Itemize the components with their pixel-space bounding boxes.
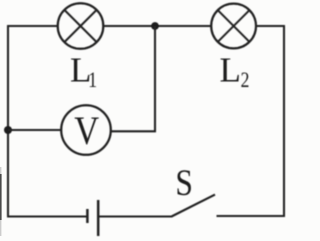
wire: right vertical	[283, 26, 285, 217]
svg-text:V: V	[74, 109, 99, 153]
lamp L2	[211, 4, 256, 49]
wire: bottom middle segment	[99, 215, 172, 217]
wire: middle vertical	[154, 26, 156, 132]
wire: top left segment	[7, 25, 58, 27]
battery cell	[87, 200, 98, 236]
voltmeter V	[61, 105, 111, 155]
svg-text:2: 2	[241, 68, 250, 92]
switch S lever	[172, 195, 216, 217]
wire: left vertical	[7, 26, 9, 216]
node junction dot left	[4, 126, 12, 134]
wire: voltmeter right lead	[110, 130, 156, 132]
node junction dot top	[151, 22, 159, 30]
wire: top right segment	[256, 25, 285, 27]
lamp L1	[58, 3, 104, 49]
wire: bottom right segment	[217, 215, 285, 217]
wire: bottom left segment	[7, 215, 87, 217]
svg-text:L: L	[220, 50, 241, 89]
svg-text:S: S	[175, 163, 193, 204]
svg-text:1: 1	[88, 68, 97, 92]
wire: voltmeter left lead	[8, 129, 62, 131]
scan artifact left edge	[0, 167, 1, 175]
wire: top middle segment	[103, 25, 211, 27]
